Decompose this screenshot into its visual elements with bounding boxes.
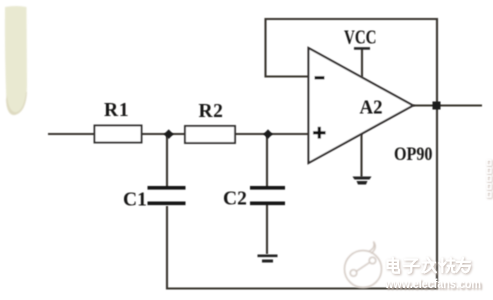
watermark vertical right edge	[487, 160, 493, 278]
wire C2 top	[266, 134, 268, 188]
capacitor C2 plates	[250, 186, 285, 190]
wire C2 bottom to ground	[266, 204, 268, 254]
resistor R2	[185, 126, 235, 143]
watermark logo circle	[345, 242, 382, 288]
ground for op-amp	[353, 177, 372, 185]
output node junction dot	[433, 102, 441, 110]
svg-text:R2: R2	[199, 101, 224, 122]
glyph fa	[422, 258, 436, 273]
svg-text:VCC: VCC	[344, 27, 377, 49]
node A junction dot	[164, 129, 174, 139]
wire C1 top	[166, 134, 168, 188]
wire R1 to node A	[141, 133, 185, 135]
wire op-amp bottom pin	[360, 134, 362, 178]
glyph dian	[388, 258, 400, 273]
svg-text:C1: C1	[123, 190, 147, 211]
VCC terminal bar	[354, 47, 370, 50]
wire node A to node B through R2	[235, 133, 309, 135]
svg-text:www.elecfans.com: www.elecfans.com	[384, 277, 481, 291]
svg-text:OP90: OP90	[394, 144, 433, 165]
glyph you	[457, 258, 471, 272]
op-amp A2 triangle	[309, 48, 414, 163]
wire VCC pin	[361, 49, 363, 78]
svg-text:R1: R1	[104, 100, 129, 121]
ground for C2	[258, 255, 278, 263]
svg-text:A2: A2	[360, 97, 383, 119]
plus input sign	[313, 127, 326, 139]
glyph shao	[439, 258, 454, 272]
watermark text dianzifashaoyou (vector glyphs)	[388, 258, 471, 273]
resistor R1	[95, 126, 142, 143]
wire feedback top	[266, 19, 438, 106]
minus input sign	[315, 76, 325, 79]
glyph zi	[404, 260, 419, 273]
wire op-amp output	[413, 104, 482, 106]
wire input	[48, 133, 95, 135]
page-corner artifact top-left	[5, 6, 27, 115]
node B junction dot	[263, 129, 272, 138]
capacitor C1 plates	[148, 186, 186, 190]
wire bottom return	[167, 106, 437, 289]
svg-text:C2: C2	[223, 189, 247, 210]
